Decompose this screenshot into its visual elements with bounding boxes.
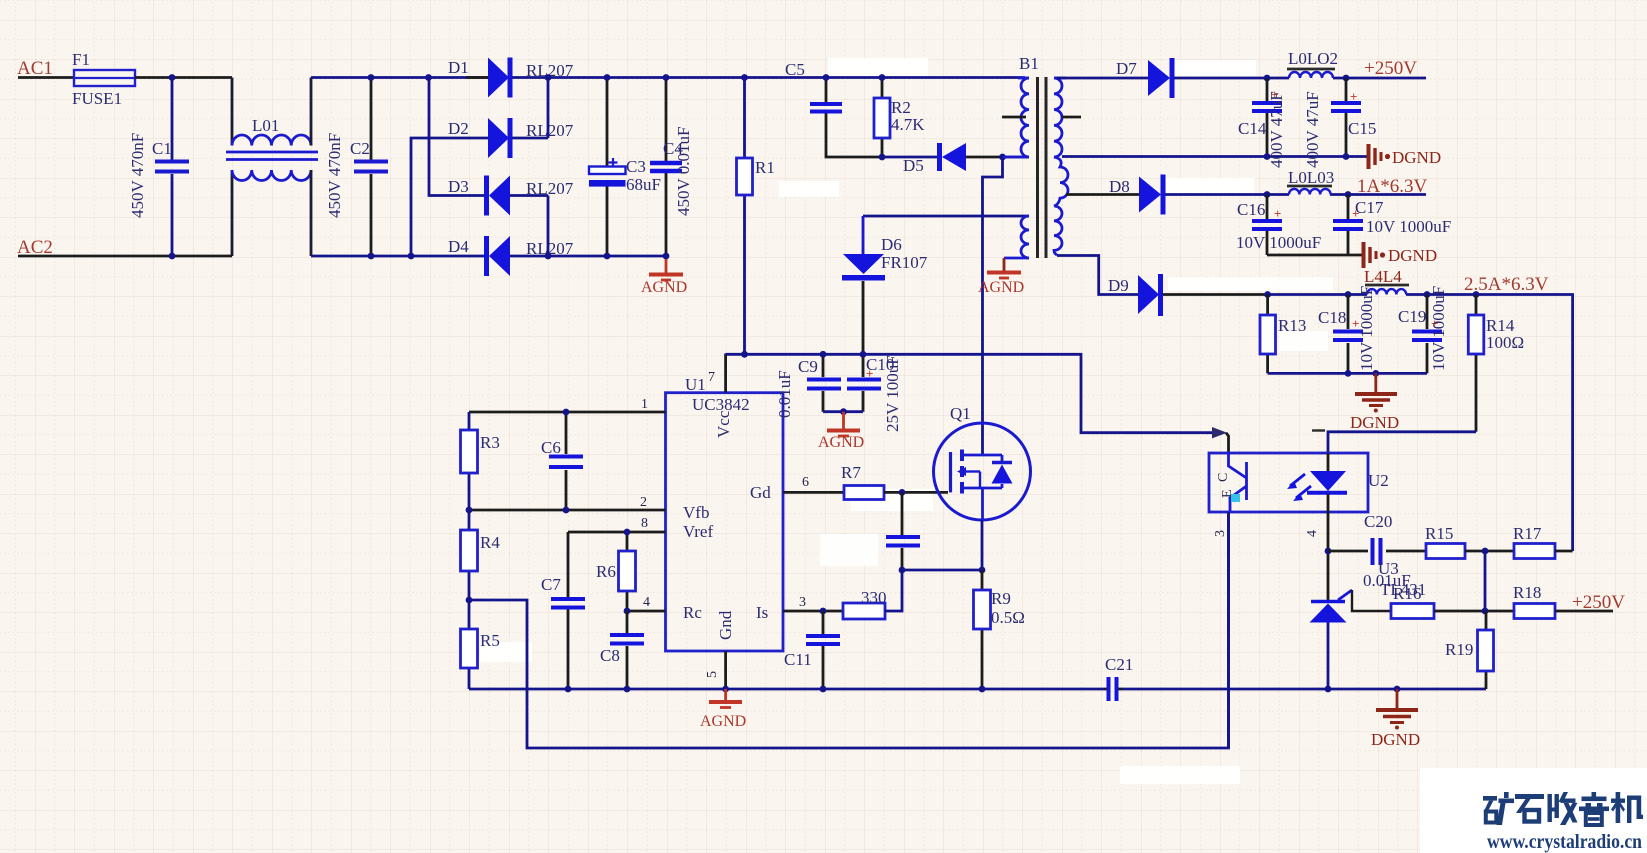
junction D5 / primary bottom <box>999 154 1006 161</box>
junction C4 top <box>663 74 670 81</box>
svg-text:C20: C20 <box>1364 512 1392 531</box>
svg-text:C15: C15 <box>1348 119 1376 138</box>
svg-text:C1: C1 <box>152 139 172 158</box>
transformer core <box>1038 77 1047 258</box>
wire 1A rail end <box>1348 193 1426 196</box>
junction C10 top <box>860 351 867 358</box>
junction C1 bottom <box>169 253 176 260</box>
wire D2 anode to AC2 rail <box>411 138 488 256</box>
svg-text:DGND: DGND <box>1392 148 1441 167</box>
junction C1 top <box>169 74 176 81</box>
resistor R18 <box>1514 604 1613 619</box>
svg-text:FR107: FR107 <box>881 253 928 272</box>
ground DGND (C18/C19) <box>1355 373 1397 405</box>
svg-text:D5: D5 <box>903 156 924 175</box>
diode D1 <box>466 58 513 98</box>
svg-text:FUSE1: FUSE1 <box>72 89 122 108</box>
svg-text:D3: D3 <box>448 177 469 196</box>
junction C18 top <box>1345 291 1352 298</box>
svg-text:R13: R13 <box>1278 316 1306 335</box>
inductor L0L03 <box>1267 186 1348 195</box>
junction R2 top <box>879 74 886 81</box>
ground AGND (transformer) <box>987 273 1021 279</box>
svg-text:25V 100uF: 25V 100uF <box>883 355 902 432</box>
svg-text:4: 4 <box>643 595 650 610</box>
svg-text:L01: L01 <box>252 116 279 135</box>
wire secondary top to D7 <box>1057 77 1148 80</box>
capacitor C5 <box>810 78 882 158</box>
svg-text:C9: C9 <box>798 357 818 376</box>
capacitor C11 <box>806 611 840 689</box>
svg-text:L0L03: L0L03 <box>1288 168 1334 187</box>
svg-text:U2: U2 <box>1368 471 1389 490</box>
svg-text:2: 2 <box>640 495 647 510</box>
pin 6 wire <box>783 491 844 494</box>
junction C18 bottom <box>1345 370 1352 377</box>
LED light arrows <box>1287 474 1311 501</box>
svg-text:C16: C16 <box>1237 200 1265 219</box>
resistor R6 <box>619 532 636 611</box>
diode D8 <box>1139 175 1267 215</box>
svg-text:D6: D6 <box>881 235 902 254</box>
svg-text:R5: R5 <box>480 631 500 650</box>
svg-text:R16: R16 <box>1393 584 1421 603</box>
svg-text:C21: C21 <box>1105 655 1133 674</box>
diode D9 <box>1138 274 1268 316</box>
svg-text:3: 3 <box>1213 530 1228 537</box>
wire TL431 ref to R16 <box>1352 590 1391 611</box>
capacitor C3 electrolytic <box>589 78 626 257</box>
pin 3 wire <box>783 610 843 613</box>
secondary winding tap <box>1062 116 1081 119</box>
ground AGND (pin5) <box>709 689 742 708</box>
capacitor C19 <box>1412 295 1442 374</box>
svg-text:www.crystalradio.cn: www.crystalradio.cn <box>1487 831 1642 853</box>
wire C16-C17 bottom rail <box>1267 254 1362 257</box>
svg-text:C18: C18 <box>1318 308 1346 327</box>
op-amp U2 box <box>1209 453 1368 512</box>
wire AC2 row after L01 <box>311 255 485 258</box>
svg-text:10V 1000uF: 10V 1000uF <box>1366 217 1451 236</box>
wire U2 emitter down to feedback rail (crosses DGND rail) <box>1227 512 1230 748</box>
wire D3-D4 anodes tie <box>510 196 548 257</box>
junction D2 branch on AC2 rail <box>408 253 415 260</box>
svg-text:+: + <box>1274 206 1281 221</box>
wire to +250V <box>1346 77 1426 80</box>
junction cap/source <box>899 567 906 574</box>
svg-text:Q1: Q1 <box>950 404 971 423</box>
svg-text:R17: R17 <box>1513 524 1542 543</box>
wire feedback from R4/R5 node <box>469 512 1229 748</box>
svg-text:D4: D4 <box>448 237 469 256</box>
svg-text:+250V: +250V <box>1364 58 1417 79</box>
diode D2 <box>488 118 513 158</box>
capacitor C18 <box>1333 295 1363 374</box>
junction R6 top <box>624 529 631 536</box>
arrow into optocoupler collector <box>1212 427 1227 438</box>
inductor L4L4 <box>1348 285 1427 295</box>
resistor R19 <box>1478 611 1494 689</box>
wire row to C18 <box>1268 293 1348 296</box>
primary upper winding <box>1003 78 1029 157</box>
junction C9 top <box>820 351 827 358</box>
wire drain drop from D5 node <box>983 157 1003 455</box>
wire 2.5A rail to right riser <box>1427 295 1573 552</box>
resistor R9 <box>974 570 991 689</box>
wire AC1 to fuse <box>18 76 74 79</box>
junction D3/D4 tie <box>545 253 552 260</box>
svg-text:R19: R19 <box>1445 640 1473 659</box>
svg-text:D8: D8 <box>1109 177 1130 196</box>
wire collector drop <box>1226 433 1229 453</box>
wire AC2 row <box>18 255 232 258</box>
resistor R17 <box>1514 544 1573 559</box>
capacitor C21 <box>1104 677 1122 701</box>
wire DGND rail right of C21 <box>1122 688 1486 691</box>
wire Q1 source down <box>981 520 984 570</box>
ground DGND (bottom) <box>1376 689 1418 723</box>
resistor R13 <box>1260 295 1276 374</box>
junction C4 bottom <box>663 253 670 260</box>
resistor R16 <box>1391 604 1434 619</box>
wire secondary bottom to D9 <box>1057 256 1138 295</box>
wire L01 to bridge top <box>311 76 488 79</box>
svg-text:Vfb: Vfb <box>683 503 709 522</box>
svg-text:AGND: AGND <box>818 434 864 451</box>
svg-text:5: 5 <box>705 671 720 678</box>
capacitor C20 <box>1328 538 1426 565</box>
junction R18 node <box>1482 608 1489 615</box>
wire R16 to node <box>1434 610 1514 613</box>
diode D5 <box>882 143 1028 171</box>
junction C5 top <box>823 74 830 81</box>
resistor R2 <box>874 78 890 158</box>
inductor L01 common-mode choke <box>232 78 311 257</box>
svg-text:450V 470nF: 450V 470nF <box>128 133 147 218</box>
svg-text:330: 330 <box>861 588 887 607</box>
svg-text:Vcc: Vcc <box>714 410 733 438</box>
cyan highlight dot <box>1231 494 1240 502</box>
ground DGND (HV, rotated) <box>1369 144 1382 169</box>
svg-text:R3: R3 <box>480 433 500 452</box>
wire primary bottom to AGND <box>1003 258 1006 271</box>
junction D1/D2 tie <box>545 74 552 81</box>
ground AGND (bridge) <box>649 259 683 280</box>
pin 4 wire <box>627 610 666 613</box>
junction C16 top <box>1264 191 1271 198</box>
junction TL431 anode on DGND rail <box>1325 686 1332 693</box>
wire negative rail D4 to C4 <box>548 255 666 258</box>
wire Vcc rail <box>726 354 1216 432</box>
primary lower winding <box>1004 216 1029 258</box>
svg-text:C3: C3 <box>626 157 646 176</box>
svg-text:C7: C7 <box>541 575 561 594</box>
svg-text:D2: D2 <box>448 119 469 138</box>
svg-text:AGND: AGND <box>978 279 1024 296</box>
wire R15/R17 node down to R18 row <box>1484 551 1487 611</box>
wire secondary tap to D8 <box>1066 193 1139 196</box>
junction C11 bottom <box>820 686 827 693</box>
svg-text:Rc: Rc <box>683 603 702 622</box>
pin 5 stem <box>724 651 727 689</box>
capacitor C17 <box>1333 195 1363 256</box>
wire D1-D2 cathodes tie <box>512 78 548 139</box>
svg-text:450V 470nF: 450V 470nF <box>325 133 344 218</box>
svg-text:+: + <box>866 366 873 381</box>
wire fuse to L01 <box>135 76 232 79</box>
svg-text:AGND: AGND <box>700 713 746 730</box>
capacitor C1 <box>155 78 189 257</box>
junction C2 bottom <box>368 253 375 260</box>
pin 8 wire <box>568 531 666 534</box>
junction C7 bottom <box>565 686 572 693</box>
svg-text:+: + <box>1352 206 1359 221</box>
junction C14 top <box>1264 75 1271 82</box>
junction C6 bottom <box>563 507 570 514</box>
svg-text:DGND: DGND <box>1371 730 1420 749</box>
junction C14 bottom <box>1264 153 1271 160</box>
svg-text:AC1: AC1 <box>17 58 53 79</box>
svg-text:Gd: Gd <box>750 483 771 502</box>
resistor 330 <box>843 570 902 619</box>
junction C8 bottom <box>624 686 631 693</box>
wire D3 cathode to AC1 rail <box>429 78 485 196</box>
resistor R4 <box>461 510 478 600</box>
erased white patches <box>480 58 1333 784</box>
svg-text:C5: C5 <box>785 60 805 79</box>
junction C19 top <box>1424 291 1431 298</box>
capacitor C8 <box>610 611 644 689</box>
junction C6 top <box>563 409 570 416</box>
svg-text:AGND: AGND <box>641 279 687 296</box>
wire secondary mid rail to DGND <box>1062 155 1367 158</box>
wire C9/C10 bottoms <box>823 410 863 413</box>
junction R1 top <box>741 74 748 81</box>
junction C2 top <box>368 74 375 81</box>
junction R4/R5 feedback node <box>466 597 473 604</box>
svg-text:B1: B1 <box>1019 54 1039 73</box>
junction DGND stem (bottom) <box>1394 686 1401 693</box>
svg-text:L0LO2: L0LO2 <box>1288 49 1338 68</box>
svg-text:1: 1 <box>641 397 648 412</box>
svg-text:Gnd: Gnd <box>716 610 735 640</box>
svg-text:4.7K: 4.7K <box>891 115 925 134</box>
capacitor C14 <box>1252 78 1282 157</box>
resistor R5 <box>461 600 478 689</box>
transistor U3 TL431 <box>1310 590 1353 689</box>
resistor R1 <box>737 78 753 354</box>
svg-text:+250V: +250V <box>1572 592 1625 613</box>
diode D6 <box>842 216 885 353</box>
diode D3 <box>484 176 510 216</box>
svg-text:C14: C14 <box>1238 119 1267 138</box>
junction R15/R17 node <box>1482 548 1489 555</box>
junction DGND stem <box>1372 370 1379 377</box>
transistor Q1 <box>934 423 1031 520</box>
optocoupler phototransistor <box>1229 453 1247 512</box>
junction gate node <box>899 489 906 496</box>
junction C17 top <box>1345 191 1352 198</box>
capacitor C2 <box>354 78 388 257</box>
junction D3 branch on AC1 rail <box>425 74 432 81</box>
svg-text:100Ω: 100Ω <box>1486 333 1524 352</box>
wire tick at LED pin <box>1312 429 1325 431</box>
capacitor C10 <box>847 354 881 411</box>
svg-text:R6: R6 <box>596 562 616 581</box>
junction C3 top <box>604 74 611 81</box>
svg-text:R7: R7 <box>841 463 861 482</box>
optocoupler LED <box>1307 453 1347 512</box>
svg-text:+: + <box>1350 89 1357 104</box>
svg-text:C19: C19 <box>1398 307 1426 326</box>
svg-text:3: 3 <box>799 595 806 610</box>
junction C3 bottom <box>604 253 611 260</box>
svg-text:C6: C6 <box>541 438 561 457</box>
svg-text:L4L4: L4L4 <box>1364 267 1402 286</box>
svg-text:F1: F1 <box>72 50 90 69</box>
wire R14 bottom to optocoupler LED <box>1328 432 1476 453</box>
svg-text:DGND: DGND <box>1388 246 1437 265</box>
junction R9 bottom <box>979 686 986 693</box>
capacitor C15 <box>1331 78 1361 157</box>
svg-text:400V 47uF: 400V 47uF <box>1303 91 1322 168</box>
svg-text:450V 0.01uF: 450V 0.01uF <box>674 127 693 216</box>
junction R6 bottom / pin4 <box>624 608 631 615</box>
secondary winding upper <box>1054 78 1068 255</box>
junction C20 node <box>1325 548 1332 555</box>
junction R13 top <box>1264 291 1271 298</box>
core lines L01 <box>226 152 318 160</box>
wire snubber to lower primary <box>863 215 1025 218</box>
junction pin2/R3 <box>466 507 473 514</box>
op-amp U1 box <box>666 393 784 651</box>
capacitor C16 <box>1252 195 1282 256</box>
svg-text:R4: R4 <box>480 533 500 552</box>
resistor R14 <box>1468 295 1484 432</box>
inductor L0LO2 <box>1267 69 1346 78</box>
capacitor C4 <box>650 78 682 257</box>
junction C15 top <box>1343 75 1350 82</box>
capacitor C9 <box>807 354 841 411</box>
svg-text:D7: D7 <box>1116 59 1137 78</box>
svg-text:6: 6 <box>802 475 809 490</box>
svg-text:10V 1000uF: 10V 1000uF <box>1357 286 1376 371</box>
svg-text:Is: Is <box>756 603 768 622</box>
svg-text:C2: C2 <box>350 139 370 158</box>
svg-text:Vref: Vref <box>683 522 713 541</box>
watermark Chinese text <box>1483 792 1643 825</box>
capacitor C6 <box>549 412 583 510</box>
ground AGND (C9/C10) <box>827 412 860 436</box>
svg-text:U1: U1 <box>685 375 706 394</box>
fuse F1 <box>74 70 135 86</box>
wire cap bottom to source <box>902 569 982 572</box>
svg-text:DGND: DGND <box>1350 413 1399 432</box>
capacitor C7 <box>551 532 585 689</box>
junction C11 / pin3 <box>820 608 827 615</box>
capacitor gate-source <box>886 492 920 570</box>
junction Q1 source / R9 <box>979 567 986 574</box>
svg-text:7: 7 <box>708 370 715 385</box>
pin 1 wire <box>469 411 666 414</box>
svg-text:10V 1000uF: 10V 1000uF <box>1429 286 1448 371</box>
svg-text:R18: R18 <box>1513 583 1541 602</box>
svg-text:D9: D9 <box>1108 276 1129 295</box>
ground DGND (6.3V rail, rotated) <box>1364 242 1377 268</box>
svg-text:C: C <box>1216 473 1231 482</box>
junction C15 bottom <box>1343 153 1350 160</box>
svg-text:R1: R1 <box>755 158 775 177</box>
junction R2/C5 bottom <box>879 154 886 161</box>
junction pin5 <box>722 686 729 693</box>
pin 2 wire <box>469 509 666 512</box>
wire LED cathode to C20 node <box>1327 512 1330 600</box>
pin 7 stem <box>724 354 727 393</box>
svg-text:D1: D1 <box>448 58 469 77</box>
junction R14 top <box>1473 291 1480 298</box>
svg-text:0.01uF: 0.01uF <box>775 370 794 418</box>
svg-text:C11: C11 <box>784 650 812 669</box>
primary winding tap <box>1002 116 1026 119</box>
wire C18/C19 bottom rail <box>1268 372 1427 375</box>
svg-text:R15: R15 <box>1425 524 1453 543</box>
wire positive rail D1 to C5 <box>548 76 1025 79</box>
svg-text:0.5Ω: 0.5Ω <box>991 608 1025 627</box>
svg-text:C8: C8 <box>600 646 620 665</box>
resistor R15 <box>1426 544 1514 559</box>
svg-text:4: 4 <box>1305 530 1320 537</box>
junction AGND stem (C9/C10) <box>840 408 847 415</box>
svg-text:R9: R9 <box>991 589 1011 608</box>
wire AGND rail <box>469 688 1104 691</box>
svg-text:68uF: 68uF <box>626 175 661 194</box>
junction R1 bottom on Vcc rail <box>741 351 748 358</box>
resistor R3 <box>461 412 478 510</box>
resistor R7 <box>844 486 948 500</box>
svg-text:8: 8 <box>641 516 648 531</box>
diode D4 <box>484 236 510 276</box>
diode D7 <box>1148 58 1267 98</box>
svg-text:10V 1000uF: 10V 1000uF <box>1236 233 1321 252</box>
